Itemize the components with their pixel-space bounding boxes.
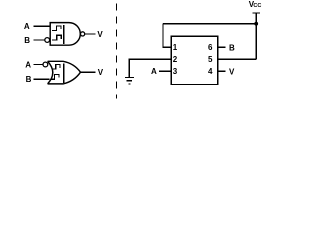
svg-text:B: B: [26, 75, 32, 84]
svg-text:A: A: [25, 61, 31, 70]
G2 input A wire: [33, 64, 43, 66]
svg-text:V: V: [97, 30, 103, 39]
junction dot: [254, 22, 258, 26]
G1 output wire: [85, 33, 96, 35]
dashed separator line: [115, 4, 117, 99]
G2 input A bubble: [43, 62, 48, 67]
wire pin1 riser to top rail: [163, 24, 171, 48]
Vcc terminal bar: [253, 12, 260, 14]
gate G2 (OR body with inverted A input): [48, 61, 81, 84]
wire pin4 stub: [218, 70, 226, 72]
G2 pulse glyph row B: [51, 75, 59, 80]
ground symbol: [125, 77, 134, 84]
svg-text:6: 6: [208, 43, 213, 52]
wire pin5 to Vcc rail: [218, 58, 256, 60]
wire pin3 to A: [159, 70, 172, 72]
G1 input B bubble: [45, 38, 50, 43]
svg-text:B: B: [229, 44, 235, 53]
IC U1 package body: [171, 36, 218, 84]
G1 pulse glyph row B: [52, 35, 61, 40]
G1 input A wire: [33, 25, 50, 27]
svg-text:V: V: [229, 67, 235, 76]
top rail wire to Vcc: [163, 23, 256, 25]
G1 output bubble: [81, 32, 85, 36]
G1 pulse glyph row A: [52, 26, 61, 30]
svg-text:V: V: [98, 68, 104, 77]
svg-text:B: B: [24, 36, 30, 45]
G2 pulse glyph row A: [52, 65, 60, 70]
svg-text:4: 4: [208, 67, 213, 76]
svg-text:5: 5: [208, 55, 213, 64]
svg-text:1: 1: [173, 43, 178, 52]
svg-text:A: A: [24, 22, 30, 31]
wire pin6 stub: [218, 46, 226, 48]
svg-text:2: 2: [173, 55, 178, 64]
G2 inner vertical bar: [63, 64, 65, 83]
svg-text:CC: CC: [253, 3, 261, 9]
svg-text:A: A: [151, 67, 157, 76]
gate G1 (NAND body with inverted B input): [50, 23, 80, 46]
G2 input B wire: [33, 78, 49, 80]
G2 output wire: [81, 71, 96, 73]
G1 input B wire: [33, 39, 44, 41]
wire pin2 to ground: [129, 59, 171, 77]
G1 inner vertical bar: [63, 25, 65, 44]
Vcc vertical rail: [255, 13, 257, 59]
G2 input-side arc: [48, 61, 53, 84]
svg-text:3: 3: [173, 67, 178, 76]
